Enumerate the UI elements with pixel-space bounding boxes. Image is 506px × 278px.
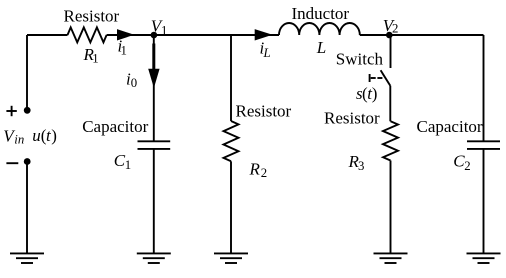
svg-text:Capacitor: Capacitor xyxy=(417,117,483,136)
svg-text:Switch: Switch xyxy=(336,50,384,69)
svg-text:u: u xyxy=(32,126,41,145)
svg-text:2: 2 xyxy=(392,22,398,36)
svg-text:1: 1 xyxy=(121,44,127,58)
svg-text:R: R xyxy=(249,160,261,179)
svg-text:in: in xyxy=(14,132,24,146)
svg-text:): ) xyxy=(372,84,378,103)
svg-text:L: L xyxy=(316,38,326,57)
svg-text:Inductor: Inductor xyxy=(292,4,350,23)
svg-text:Resistor: Resistor xyxy=(236,101,292,120)
svg-text:2: 2 xyxy=(261,166,267,180)
svg-text:0: 0 xyxy=(131,76,137,90)
svg-text:L: L xyxy=(263,46,271,60)
svg-text:2: 2 xyxy=(464,159,470,173)
svg-text:Resistor: Resistor xyxy=(324,108,380,127)
svg-text:1: 1 xyxy=(92,52,98,66)
svg-text:): ) xyxy=(51,126,57,145)
svg-text:Resistor: Resistor xyxy=(64,7,120,26)
svg-text:3: 3 xyxy=(358,159,364,173)
svg-text:1: 1 xyxy=(161,24,167,38)
svg-text:1: 1 xyxy=(125,158,131,172)
svg-text:Capacitor: Capacitor xyxy=(82,117,148,136)
